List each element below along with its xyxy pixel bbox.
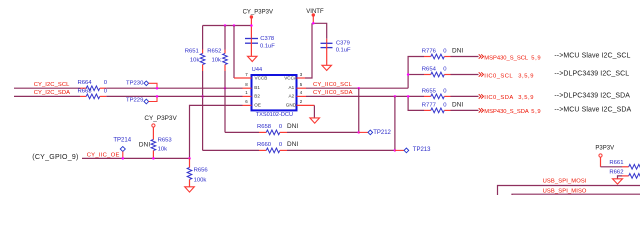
svg-text:10k: 10k <box>190 58 200 64</box>
svg-text:R651: R651 <box>185 49 199 55</box>
svg-text:10k: 10k <box>158 146 168 152</box>
svg-text:R777: R777 <box>422 103 436 109</box>
node rail junction power <box>250 24 253 27</box>
resistor R658 (0 DNI bypass SCL) <box>225 123 359 135</box>
wire VINTF branch to C379 <box>313 23 326 39</box>
node R658/TP212 junction <box>358 131 361 134</box>
node TP229 junction <box>156 95 159 98</box>
svg-text:VCCA: VCCA <box>284 75 298 80</box>
svg-text:-->MCU Slave I2C_SDA: -->MCU Slave I2C_SDA <box>554 107 631 114</box>
node R653 junction <box>152 157 155 160</box>
svg-text:P3P3V: P3P3V <box>595 146 614 152</box>
wire USB_SPI_MOSI <box>498 186 640 196</box>
svg-text:CY_I2C_SCL: CY_I2C_SCL <box>34 82 70 88</box>
power symbol CY_P3P3V (top) <box>243 9 273 38</box>
svg-text:R656: R656 <box>194 168 209 174</box>
capacitor C378 <box>245 36 275 56</box>
svg-text:R660: R660 <box>257 142 272 148</box>
node R654 junction <box>407 73 410 76</box>
node IIC0_SCL off-page connector <box>479 72 534 79</box>
svg-text:VCCB: VCCB <box>255 75 268 80</box>
pin 8 B1 <box>243 82 261 90</box>
node MSP430_S_SCL off-page connector <box>479 54 541 61</box>
svg-text:DNI: DNI <box>452 48 463 55</box>
svg-text:TP229: TP229 <box>126 98 143 104</box>
svg-text:R655: R655 <box>422 88 437 94</box>
testpoint TP230 <box>126 80 157 88</box>
pin 2 GND <box>286 99 315 107</box>
svg-text:DNI: DNI <box>452 102 463 109</box>
svg-text:TP230: TP230 <box>126 80 144 86</box>
pin 3 VCCA <box>284 72 305 81</box>
resistor R661 <box>601 160 640 169</box>
wire GND pin drop <box>313 105 315 118</box>
wire R652 vertical to SCL and R658 row <box>224 71 226 132</box>
svg-text:IIC0_SCL: IIC0_SCL <box>484 73 513 79</box>
node rail junction R652 <box>224 24 227 27</box>
svg-text:MSP430_S_SDA: MSP430_S_SDA <box>484 109 529 115</box>
svg-text:TP214: TP214 <box>113 137 131 143</box>
node SCL/R652 junction <box>224 87 227 90</box>
resistor R655 <box>422 88 479 98</box>
wire SDA dropper to R777 row <box>408 96 424 110</box>
resistor R653 (10k DNI) <box>139 138 173 159</box>
pin 5 A1 <box>289 82 307 90</box>
testpoint TP214 <box>113 137 131 158</box>
svg-text:DNI: DNI <box>139 141 150 148</box>
resistor R656 (100k pulldown) <box>187 158 208 186</box>
resistor R662 <box>609 170 640 179</box>
node MSP430_S_SDA off-page connector <box>479 108 541 115</box>
svg-text:CY_I2C_SDA: CY_I2C_SDA <box>34 90 70 96</box>
svg-text:OE: OE <box>254 102 261 107</box>
wire VCCB drop from rail <box>233 26 235 79</box>
ground (U44 pin 2) <box>310 118 320 123</box>
svg-text:DNI: DNI <box>287 123 298 130</box>
svg-text:A1: A1 <box>289 85 295 90</box>
node SDA/R777 junction <box>407 95 410 98</box>
pin 1 B2 <box>243 90 261 98</box>
svg-text:TXS0102-DCU: TXS0102-DCU <box>256 112 293 118</box>
wire CY_I2C_SCL <box>14 87 80 89</box>
svg-text:C379: C379 <box>336 40 350 46</box>
wire CY_IIC0_SDA <box>306 95 424 97</box>
resistor R660 (0 DNI bypass SDA) <box>203 141 395 153</box>
svg-text:CY_IIC_OE: CY_IIC_OE <box>87 153 120 159</box>
IC U44 body TXS0102-DCU <box>252 75 297 110</box>
pin 7 VCCB <box>234 72 267 81</box>
testpoint TP213 <box>395 147 431 153</box>
ground (under C378) <box>248 56 258 61</box>
svg-text:R664: R664 <box>78 80 93 86</box>
power symbol VINTF <box>306 9 324 23</box>
svg-text:DNI: DNI <box>287 141 298 148</box>
ground (under R656) <box>185 187 195 192</box>
wire R654 tee <box>408 74 424 76</box>
svg-text:C378: C378 <box>260 36 274 42</box>
svg-text:-->DLPC3439 I2C_SDA: -->DLPC3439 I2C_SDA <box>554 93 630 100</box>
svg-text:R652: R652 <box>207 49 221 55</box>
svg-text:U44: U44 <box>252 67 262 73</box>
ground (R662) <box>613 179 623 184</box>
svg-text:CY_IIC0_SDA: CY_IIC0_SDA <box>313 90 353 96</box>
svg-text:CY_P3P3V: CY_P3P3V <box>243 9 273 15</box>
svg-text:B1: B1 <box>254 85 260 90</box>
svg-text:(CY_GPIO_9): (CY_GPIO_9) <box>32 154 78 161</box>
node R660/TP213 junction <box>394 149 397 152</box>
wire OE pin to lower left <box>190 105 243 158</box>
svg-text:-->MCU Slave I2C_SCL: -->MCU Slave I2C_SCL <box>554 53 630 60</box>
pin 4 A2 <box>289 90 307 98</box>
svg-text:R654: R654 <box>422 66 437 72</box>
svg-text:R661: R661 <box>609 160 623 166</box>
svg-text:5,9: 5,9 <box>531 55 541 61</box>
resistor R777 <box>422 102 479 113</box>
node SDA/R651 junction <box>201 95 204 98</box>
svg-text:TP212: TP212 <box>373 130 391 136</box>
node OE corner junction <box>188 157 191 160</box>
testpoint TP212 <box>359 130 392 136</box>
svg-text:R653: R653 <box>158 138 173 144</box>
wire CY_IIC_OE <box>82 157 190 159</box>
node TP230 junction <box>156 87 159 90</box>
wire CY_P3P3V rail <box>203 25 252 27</box>
resistor R663 (0 ohm series SDA) <box>78 88 108 98</box>
node SCL/TP212 riser junction <box>358 87 361 90</box>
svg-text:0.1uF: 0.1uF <box>260 44 275 50</box>
node SDA/TP213 riser junction <box>394 95 397 98</box>
svg-text:-->DLPC3439 I2C_SCL: -->DLPC3439 I2C_SCL <box>554 71 629 78</box>
ground (under C379) <box>322 65 332 70</box>
svg-text:CY_P3P3V: CY_P3P3V <box>144 115 177 122</box>
svg-text:R662: R662 <box>609 170 623 176</box>
svg-text:R776: R776 <box>422 49 437 55</box>
resistor R654 <box>422 66 479 76</box>
wire CY_I2C_SDA <box>14 95 80 97</box>
svg-text:USB_SPI_MOSI: USB_SPI_MOSI <box>543 179 587 185</box>
svg-text:R658: R658 <box>257 124 272 130</box>
svg-text:3,5,9: 3,5,9 <box>518 95 534 101</box>
wire USB_SPI_MISO <box>512 193 640 196</box>
svg-text:3,5,9: 3,5,9 <box>518 73 534 79</box>
svg-text:MSP430_S_SCL: MSP430_S_SCL <box>484 55 529 61</box>
svg-text:B2: B2 <box>254 93 260 98</box>
svg-text:10k: 10k <box>212 58 222 64</box>
svg-text:GND: GND <box>286 102 297 107</box>
pin 6 OE <box>243 99 261 107</box>
power symbol P3P3V <box>595 146 614 167</box>
wire TP213 riser <box>394 96 396 150</box>
svg-text:CY_IIC0_SCL: CY_IIC0_SCL <box>313 82 353 88</box>
svg-text:0.1uF: 0.1uF <box>336 48 351 54</box>
resistor R651 (10k pullup to SDA) <box>185 26 205 72</box>
node rail junction VCCB <box>233 24 236 27</box>
wire SCL riser to R776 row <box>408 57 424 89</box>
wire TP212 riser <box>358 88 360 132</box>
resistor R776 <box>422 48 479 59</box>
svg-text:100k: 100k <box>194 177 207 183</box>
capacitor C379 <box>321 39 351 66</box>
node TP214 junction <box>122 157 125 160</box>
svg-text:5,9: 5,9 <box>531 109 541 115</box>
svg-text:VINTF: VINTF <box>306 9 324 15</box>
svg-text:TP213: TP213 <box>413 147 431 153</box>
wire VINTF to VCCA pin 3 <box>305 23 312 78</box>
testpoint TP229 <box>126 96 157 103</box>
node VINTF junction <box>312 22 315 25</box>
node IIC0_SDA off-page connector <box>479 94 534 101</box>
svg-text:IIC0_SDA: IIC0_SDA <box>484 95 513 101</box>
power symbol CY_P3P3V (R653 pullup) <box>144 115 177 140</box>
svg-text:A2: A2 <box>289 93 295 98</box>
resistor R664 (0 ohm series SCL) <box>78 80 108 90</box>
svg-text:R663: R663 <box>78 88 93 94</box>
wire CY_IIC0_SCL <box>306 87 408 89</box>
wire R651 vertical to SDA and R660 row <box>202 71 204 150</box>
resistor R652 (10k pullup to SCL) <box>207 26 227 72</box>
